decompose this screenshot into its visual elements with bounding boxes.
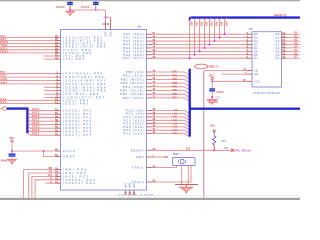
svg-text:(ADC4) PF4: (ADC4) PF4 [63, 123, 92, 127]
latch U5 pin D7 (9) [247, 57, 253, 59]
svg-text:D3: D3 [254, 42, 258, 46]
svg-text:WR: WR [48, 168, 52, 170]
svg-text:PB7 (OC2): PB7 (OC2) [123, 96, 145, 100]
svg-text:100nF: 100nF [216, 90, 224, 94]
resonator X1 symbol [179, 160, 186, 163]
svg-text:PB3 (MISO): PB3 (MISO) [121, 81, 145, 85]
svg-text:PB0 (SS): PB0 (SS) [126, 70, 145, 74]
mcu U6 right pin PA4 (AD4) (47) [147, 47, 152, 49]
capacitor C2 bottom stub [95, 5, 97, 10]
mcu U6 left pin (XCK1) PD5 (30) [56, 52, 61, 54]
svg-text:(PDO/TXD0) PE1: (PDO/TXD0) PE1 [63, 75, 105, 79]
wire AD2 vertical [215, 18, 217, 41]
capacitor C_AVCC [9, 153, 16, 155]
wire AD3 vertical [210, 18, 212, 45]
mcu U6 left pin (ICP3/INT7) PE7 (9) [56, 97, 61, 99]
latch U5 pin D4 (6) [247, 47, 253, 49]
mcu U6 right pin PC4 (A12) (39) [147, 123, 152, 125]
junction VCC pins [105, 16, 107, 18]
svg-text:PB6: PB6 [172, 93, 177, 96]
svg-text:PB1: PB1 [172, 74, 177, 77]
mcu U6 left pin (TOSC2) PG3 (18) [56, 179, 61, 181]
svg-text:Q6: Q6 [275, 53, 280, 57]
svg-text:LE: LE [254, 69, 258, 73]
mcu U6 top pin VCC 21 [105, 21, 107, 29]
mcu U6 right pin PB6 (OC1B) (16) [147, 93, 152, 95]
svg-text:OC2: OC2 [0, 100, 6, 104]
bus Data[0..7] [190, 18, 300, 21]
wire PA5 to U5 [152, 50, 247, 52]
resistor R1 4K7 [213, 136, 216, 145]
wire PD3 to left edge [0, 46, 56, 48]
wire ADC2 [28, 116, 56, 118]
mcu U6 bottom pin GND 53 [129, 190, 131, 194]
latch U5 pin VCC (20) [247, 80, 253, 82]
wire PE3 to left edge [0, 83, 56, 85]
wire ADC6 [28, 130, 56, 132]
svg-text:RST: RST [186, 149, 191, 151]
mcu U6 right pin PC7 (A15) (42) [147, 133, 152, 135]
svg-text:ALE: ALE [48, 174, 53, 177]
svg-text:ADC5: ADC5 [32, 125, 40, 129]
mcu U6 left pin (T2) PD7 (32) [56, 58, 61, 60]
mcu U6 right pin PEN (1) [147, 156, 152, 158]
svg-text:PB6 (OC1B): PB6 (OC1B) [120, 92, 144, 96]
svg-text:PDO: PDO [0, 74, 6, 78]
mcu U6 left pin (ADC4) PF4 (57) [56, 124, 61, 126]
svg-text:100nF: 100nF [81, 5, 91, 9]
mcu U6 right pin PA5 (AD5) (46) [147, 50, 152, 52]
latch U5 pin Q4 (15) [282, 47, 287, 49]
svg-text:74HC573/PW/90: 74HC573/PW/90 [253, 91, 280, 95]
wire PG2 down off-page [32, 176, 56, 200]
svg-text:PA2 (AD2): PA2 (AD2) [123, 39, 144, 43]
svg-text:PA5 (AD5): PA5 (AD5) [123, 49, 144, 53]
svg-text:Q3: Q3 [275, 42, 280, 46]
svg-text:Q7: Q7 [275, 56, 280, 60]
mcu U6 left pin (XCK0/AIN0) PE2 (4) [56, 80, 61, 82]
svg-text:4K7: 4K7 [221, 139, 226, 143]
svg-text:VCC: VCC [254, 79, 261, 83]
capacitor C2 100nF [93, 2, 99, 4]
wire A13 to bus [152, 126, 185, 128]
mcu U6 right pin PC5 (A13) (40) [147, 126, 152, 128]
junction AD0/PA0 [224, 33, 226, 35]
mcu U6 right pin XTAL1 (24) [147, 167, 152, 169]
wire PB7 to bus [152, 97, 185, 99]
wire PE4 short [44, 86, 56, 88]
junction AD7/PA7 [189, 57, 191, 59]
svg-text:PEN: PEN [163, 157, 168, 159]
mcu U6 top pin VCC 52 [109, 19, 111, 30]
svg-text:XCK1: XCK1 [0, 49, 8, 53]
capacitor C1 top stub [69, 0, 71, 2]
capacitor C_U5 [209, 88, 215, 90]
svg-text:OE: OE [254, 72, 259, 76]
wire PEN stub [152, 156, 163, 158]
svg-text:PB0: PB0 [172, 71, 177, 74]
svg-text:D4: D4 [254, 46, 258, 50]
mcu U6 left pin (WR) PG0 (33) [56, 169, 61, 171]
svg-text:U6: U6 [137, 24, 141, 28]
junction AD2/PA2 [214, 40, 216, 42]
wire 3V3 to U5 VCC [212, 80, 246, 82]
wire PB0 to bus [152, 71, 185, 73]
svg-text:8MHz: 8MHz [173, 153, 180, 156]
wire ADC7 [28, 133, 56, 135]
svg-text:ADC6: ADC6 [32, 128, 40, 132]
wire PD7 short [44, 58, 56, 60]
svg-text:AD0: AD0 [224, 22, 227, 27]
svg-text:AREF: AREF [63, 155, 76, 159]
mcu U6 left pin (ADC1) PF1 (60) [56, 113, 61, 115]
wire resonator gnd stem [185, 185, 187, 188]
mcu U6 left pin (SCL/INT0) PD0 (25) [56, 36, 61, 38]
mcu U6 bottom pin GND 63 [133, 190, 135, 194]
svg-text:AD1: AD1 [219, 22, 222, 27]
svg-text:AD6: AD6 [194, 22, 197, 27]
latch U5 pin OE (1) [247, 73, 253, 75]
svg-text:D7: D7 [254, 56, 258, 60]
mcu U6 right pin PB7 (OC2) (17) [147, 97, 152, 99]
wire AREF branch [44, 151, 56, 157]
svg-text:PB1 (SCK): PB1 (SCK) [123, 74, 145, 78]
capacitor C_AVCC stub2 [11, 157, 13, 160]
wire PE7 short [44, 97, 56, 99]
wire PA3 to U5 [152, 43, 247, 45]
svg-text:3V3: 3V3 [209, 74, 214, 78]
wire A14 to bus [152, 129, 185, 131]
svg-text:(XCK0/AIN0) PE2: (XCK0/AIN0) PE2 [63, 79, 107, 83]
wire PE0 to left edge [0, 73, 56, 75]
mcu U6 left pin (RD) PG1 (34) [56, 172, 61, 174]
svg-text:ADC4: ADC4 [32, 121, 40, 125]
junction C_U5 gnd [211, 96, 213, 98]
mcu U6 right pin PA0 (AD0) (51) [147, 33, 152, 35]
svg-text:A15: A15 [173, 132, 178, 135]
svg-text:PB[0..7]: PB[0..7] [209, 66, 218, 69]
mcu U6 left pin AVCC (64) [56, 150, 61, 152]
wire PA7 to U5 [152, 57, 247, 59]
mcu U6 left pin (ADC2) PF2 (59) [56, 117, 61, 119]
mcu U6 right pin PB1 (SCK) (11) [147, 75, 152, 77]
svg-text:PB5 (OC1A): PB5 (OC1A) [120, 89, 144, 93]
latch U5 pin D2 (4) [247, 40, 253, 42]
mcu U6 right pin PB2 (MOSI) (12) [147, 78, 152, 80]
mcu U6 right pin PA2 (AD2) (49) [147, 40, 152, 42]
wire AD0 vertical [225, 18, 227, 34]
wire XTAL1 [152, 166, 177, 168]
wire AD1 vertical [220, 18, 222, 38]
latch U5 pin Q3 (16) [282, 43, 287, 45]
wire PB7 to left edge [0, 103, 56, 105]
svg-text:Q2: Q2 [275, 39, 280, 43]
svg-text:GND: GND [128, 183, 130, 188]
junction AD4/PA4 [204, 47, 206, 49]
resonator X1 body [173, 158, 195, 166]
wire A12 to bus [152, 123, 185, 125]
wire OE [222, 73, 247, 75]
wire PA4 to U5 [152, 47, 247, 49]
bus PB/A vertical [190, 69, 300, 137]
svg-text:PEN: PEN [136, 155, 144, 159]
junction AD3/PA3 [209, 44, 211, 46]
svg-text:Q0: Q0 [275, 32, 280, 36]
svg-text:(RD) PG1: (RD) PG1 [63, 171, 87, 175]
svg-text:PB3: PB3 [172, 82, 177, 85]
svg-text:XTAL1: XTAL1 [132, 166, 145, 170]
mcu U6 right pin PC6 (A14) (41) [147, 129, 152, 131]
svg-text:ADC1: ADC1 [32, 111, 40, 115]
bus ADC[0..7] [6, 109, 27, 134]
svg-text:D5: D5 [254, 49, 258, 53]
svg-text:D0: D0 [254, 32, 258, 36]
bus ADC entry arrow [1, 106, 6, 111]
power 3V3 reset symbol [213, 130, 215, 132]
latch U5 pin Q6 (13) [282, 54, 287, 56]
wire ALE to U5 LE [204, 70, 247, 72]
svg-text:PC7 (A15): PC7 (A15) [123, 132, 144, 136]
svg-text:PB4: PB4 [172, 86, 177, 89]
svg-text:Data[0..7]: Data[0..7] [274, 13, 286, 17]
svg-text:D1: D1 [254, 36, 258, 40]
wire ADC4 [28, 123, 56, 125]
junction caps [69, 9, 71, 11]
latch U5 pin Q7 (12) [282, 57, 287, 59]
wire PB4 to left edge [0, 99, 56, 101]
wire PD0 to left edge [0, 36, 56, 38]
wire AD4 vertical [205, 18, 207, 48]
no-connect X PC_Reset [231, 149, 234, 152]
mcu U6 left pin (OC3C/INT5) PE5 (7) [56, 90, 61, 92]
mcu U6 left pin (T1) PD6 (31) [56, 55, 61, 57]
svg-text:ADC2: ADC2 [32, 114, 40, 118]
latch U5 pin D6 (8) [247, 54, 253, 56]
svg-text:(ADC1) PF1: (ADC1) PF1 [63, 112, 92, 116]
wire PA0 to U5 [152, 33, 247, 35]
wire PB3 to bus [152, 82, 185, 84]
top gray window band [0, 0, 300, 1]
ground for resonator [179, 187, 193, 194]
svg-text:PB5: PB5 [172, 89, 177, 92]
resistor R1 top stub [213, 132, 215, 136]
wire PA6 to U5 [152, 54, 247, 56]
svg-text:PB2: PB2 [172, 78, 177, 81]
svg-text:PB2 (MOSI): PB2 (MOSI) [121, 77, 145, 81]
svg-text:(OC2) PB7: (OC2) PB7 [63, 102, 90, 106]
power 3V3 U5 symbol [211, 77, 213, 79]
bottom light divider [0, 195, 300, 197]
svg-text:(ADC5) PF5: (ADC5) PF5 [63, 126, 92, 130]
wire PB4 to bus [152, 86, 185, 88]
mcu U6 bottom pin GND 22 [125, 190, 127, 194]
svg-text:PA0 (AD0): PA0 (AD0) [123, 32, 144, 36]
svg-text:(WR) PG0: (WR) PG0 [63, 168, 87, 172]
svg-text:ADC3: ADC3 [32, 118, 40, 122]
mcu U6 left pin (SDA/INT1) PD1 (26) [56, 40, 61, 42]
wire ALE down off-page [203, 71, 205, 200]
svg-text:AD4: AD4 [204, 22, 207, 27]
mcu U6 left pin (PDI/RXD0) PE0 (2) [56, 73, 61, 75]
mcu U6 right pin PB4 (OC0) (14) [147, 86, 152, 88]
mcu U6 right pin PA3 (AD3) (48) [147, 43, 152, 45]
ground for C_AVCC [7, 159, 17, 164]
svg-text:AVCC: AVCC [63, 149, 76, 153]
svg-text:(TOSC2) PG3: (TOSC2) PG3 [63, 178, 96, 182]
svg-text:ADC0: ADC0 [32, 107, 40, 111]
svg-text:VCC: VCC [108, 32, 112, 38]
wire PD6 short [44, 55, 56, 57]
junction AREF branch [43, 150, 45, 152]
wire AD5 vertical [200, 18, 202, 52]
wire XTAL2 [152, 166, 192, 182]
wire PG3 down off-page [35, 180, 55, 200]
wire PD1 to left edge [0, 40, 56, 42]
mcu U6 left pin (ADC7) PF7 (54) [56, 134, 61, 136]
svg-text:(ADC2) PF2: (ADC2) PF2 [63, 116, 92, 120]
svg-text:(OC3A/AIN1) PE3: (OC3A/AIN1) PE3 [63, 82, 107, 86]
capacitor C2 top stub [95, 0, 97, 2]
ground for caps [65, 11, 75, 16]
wire PE6 short [44, 93, 56, 95]
svg-text:GND: GND [132, 183, 134, 188]
wire caps to VCC [70, 10, 106, 21]
svg-text:3V3: 3V3 [210, 124, 215, 128]
mcu U6 right pin PC1 (A9) (36) [147, 113, 152, 115]
wire A10 to bus [152, 116, 185, 118]
svg-text:PB4 (OC0): PB4 (OC0) [123, 85, 145, 89]
svg-text:D6: D6 [254, 53, 258, 57]
wire PG4 short [45, 182, 56, 184]
wire RESET [152, 149, 232, 151]
latch U5 pin D5 (7) [247, 50, 253, 52]
mcu U6 body [61, 30, 147, 191]
wire PD5 to left edge [0, 52, 56, 54]
wire PE5 short [44, 90, 56, 92]
capacitor C1 100nF [67, 2, 73, 4]
mcu U6 right pin PC0 (A8) (35) [147, 109, 152, 111]
latch U5 pin LE (11) [247, 70, 253, 72]
mcu U6 left pin (OC0) PB4 (14) [56, 99, 61, 101]
latch U5 pin Q5 (14) [282, 50, 287, 52]
wire PA1 to U5 [152, 37, 247, 39]
mcu U6 right pin PA6 (AD6) (45) [147, 54, 152, 56]
mcu U6 left pin (ADC3) PF3 (58) [56, 120, 61, 122]
svg-text:100nF: 100nF [56, 5, 66, 9]
latch U5 pin D0 (2) [247, 33, 253, 35]
mcu U6 left pin (OC3B/INT4) PE4 (6) [56, 86, 61, 88]
svg-text:PA6 (AD6): PA6 (AD6) [123, 53, 144, 57]
junction cap2 [95, 9, 96, 10]
mcu U6 left pin (OC3A/AIN1) PE3 (5) [56, 83, 61, 85]
svg-text:AD2: AD2 [214, 22, 217, 27]
latch U5 pin Q2 (17) [282, 40, 287, 42]
mcu U6 left pin (ADC5) PF5 (56) [56, 127, 61, 129]
capacitor C1 bottom stub [69, 5, 71, 10]
junction AD1/PA1 [219, 37, 221, 39]
wire ADC3 [28, 119, 56, 121]
svg-text:(T3/INT6) PE6: (T3/INT6) PE6 [63, 92, 100, 96]
wire PE2 to left edge [0, 80, 56, 82]
wire A9 to bus [152, 113, 185, 115]
svg-text:PA7 (AD7): PA7 (AD7) [123, 56, 144, 60]
latch U5 pin Q1 (18) [282, 37, 287, 39]
svg-text:(ADC0) PF0: (ADC0) PF0 [63, 109, 92, 113]
svg-text:ADC7: ADC7 [32, 132, 40, 136]
mcu U6 left pin (T3/INT6) PE6 (8) [56, 93, 61, 95]
svg-text:(OC3C/INT5) PE5: (OC3C/INT5) PE5 [63, 89, 107, 93]
mcu U6 left pin (ICP1) PD4 (29) [56, 49, 61, 51]
mcu U6 right pin PA1 (AD1) (50) [147, 37, 152, 39]
wire PA2 to U5 [152, 40, 247, 42]
latch U5 pin D3 (5) [247, 43, 253, 45]
svg-text:Q1: Q1 [275, 36, 280, 40]
wire PD2 to left edge [0, 43, 56, 45]
capacitor C_U5 stub [211, 81, 213, 88]
svg-text:(T2) PD7: (T2) PD7 [63, 57, 86, 61]
svg-text:PB7: PB7 [172, 97, 177, 100]
mcu U6 left pin (TOSC1) PG4 (19) [56, 182, 61, 184]
mcu U6 left pin (ADC0) PF0 (61) [56, 110, 61, 112]
svg-text:PA4 (AD4): PA4 (AD4) [123, 46, 144, 50]
svg-text:RD: RD [49, 172, 53, 174]
latch U5 body [252, 32, 282, 87]
svg-text:Q5: Q5 [275, 49, 280, 53]
ground for C_U5 [207, 100, 218, 105]
mcu U6 left pin (TXD1/INT3) PD3 (28) [56, 46, 61, 48]
capacitor C_U5 stub2 [211, 91, 213, 99]
svg-text:AIN0: AIN0 [0, 77, 7, 81]
mcu U6 right pin XTAL2 (23) [147, 181, 152, 183]
wire A8 to bus [152, 109, 185, 111]
svg-text:AD5: AD5 [199, 22, 202, 27]
mcu U6 left pin (ADC6) PF6 (55) [56, 131, 61, 133]
svg-text:AIN1: AIN1 [0, 80, 7, 84]
wire A15 to bus [152, 133, 185, 135]
svg-text:PDI: PDI [0, 70, 5, 74]
wire A11 to bus [152, 119, 185, 121]
wire PE1 to left edge [0, 76, 56, 78]
junction AVCC [11, 150, 13, 152]
mcu U6 right pin PA7 (AD7) (44) [147, 57, 152, 59]
svg-text:TCK: TCK [223, 147, 228, 150]
wire resonator gnd bar [175, 184, 198, 186]
mcu U6 right pin PB3 (MISO) (13) [147, 82, 152, 84]
latch U5 pin Q0 (19) [282, 33, 287, 35]
wire PD4 to left edge [0, 49, 56, 51]
wire VCC pin52 hook [106, 17, 111, 19]
svg-text:PA1 (AD1): PA1 (AD1) [123, 36, 144, 40]
svg-text:PA3 (AD3): PA3 (AD3) [123, 42, 144, 46]
mcu U6 left pin (RXD1/INT2) PD2 (27) [56, 43, 61, 45]
bus label oval PB[0..7] [195, 64, 208, 69]
mcu U6 right pin PC3 (A11) (38) [147, 119, 152, 121]
power 3V3 AVCC symbol [11, 140, 13, 142]
wire ADC0 [28, 109, 56, 111]
svg-text:(ADC3) PF3: (ADC3) PF3 [63, 119, 92, 123]
junction AD5/PA5 [199, 50, 201, 52]
svg-text:VCC: VCC [104, 32, 108, 38]
wire PG0 down off-page [24, 170, 56, 200]
resistor R1 bottom stub [213, 145, 215, 150]
junction U5 VCC [211, 80, 213, 82]
svg-text:GND: GND [123, 183, 125, 188]
wire ADC1 [28, 112, 56, 114]
svg-text:(PDI/RXD0) PE0: (PDI/RXD0) PE0 [63, 72, 104, 76]
mcu U6 left pin (ALE) PG2 (43) [56, 175, 61, 177]
capacitor C_AVCC stub [11, 151, 13, 154]
wire AD6 vertical [195, 18, 197, 55]
